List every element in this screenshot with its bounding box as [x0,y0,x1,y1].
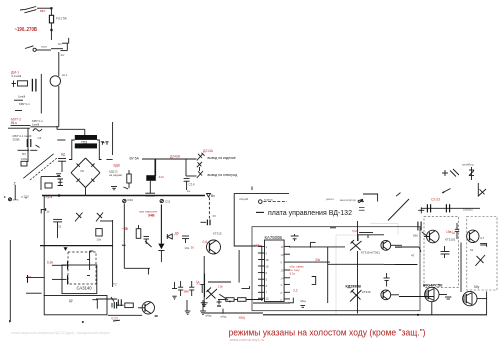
MOSFET Q9 [463,291,477,305]
svg-text:ж: ж [25,196,27,200]
capacitor C15 ground [172,282,177,299]
dash-dot wire [264,201,288,203]
lamp HL1 [50,76,60,86]
polarity plus [217,300,222,307]
svg-text:10к: 10к [218,285,223,289]
resistor R15 [238,298,246,302]
svg-text:Вх: Вх [211,194,215,198]
capacitor C19 [112,302,124,309]
component bracket [312,277,316,285]
autotransformer arrow 2 [30,158,57,180]
board outline [252,227,420,311]
IC DA1 [265,240,285,302]
diode VD13 [96,213,103,222]
transformer T1 secondary bar [75,143,97,148]
wire [154,159,156,176]
wire stub [113,319,120,322]
MOSFET Q8 [425,287,439,301]
wire [289,246,345,248]
resistor R1 [51,38,69,51]
transistor Q1 [207,240,221,254]
capacitor C25 [441,246,450,258]
svg-text:1к: 1к [191,246,195,250]
svg-text:Д243А: Д243А [170,154,181,158]
bridge rectifier VD3 [71,173,86,188]
wire [357,221,359,241]
svg-text:34В: 34В [148,214,155,218]
wire [40,177,42,190]
transformer T1 core stub [84,129,86,135]
svg-text:100к: 100к [21,157,28,161]
capacitor C17 [189,281,194,296]
svg-text:1к: 1к [452,231,456,235]
wire [58,52,60,76]
wire [477,183,479,197]
wire [108,314,142,316]
svg-text:1к: 1к [125,227,129,231]
marks [301,306,306,308]
wire [289,261,330,263]
svg-text:VD: VD [80,169,84,173]
svg-text:0,22: 0,22 [112,317,119,321]
wire [147,268,149,274]
svg-text:51: 51 [470,248,474,252]
wire [18,149,30,151]
capacitor plate pair 2 [446,204,449,212]
resistor R17 [442,169,459,177]
capacitor C12 [96,297,121,306]
wire [359,232,373,234]
svg-text:15: 15 [266,265,270,269]
svg-text:С14: С14 [189,183,195,187]
wire [106,159,112,161]
svg-text:14: 14 [281,277,285,281]
diode VD17 pair [350,289,362,302]
wire [27,128,29,162]
svg-text:10к: 10к [185,246,190,250]
wire [57,139,65,141]
connector X1 [123,199,126,202]
wire [399,296,434,298]
node B [50,29,52,31]
IC right pin numbers [281,245,285,302]
wire corner above board [234,193,289,246]
wire [50,31,52,40]
wire [391,244,402,246]
net symbol O [259,200,263,204]
capacitor C20 ground [185,300,191,314]
dashed wire [208,198,210,219]
svg-text:реле t: реле t [326,197,334,201]
transformer T1 primary bar [75,135,97,140]
svg-text:4,7: 4,7 [480,236,485,240]
svg-text:Д213А: Д213А [203,149,214,153]
svg-text:51 к: 51 к [11,121,17,125]
diode VD6 [58,179,64,186]
wire exit top [363,194,378,202]
svg-text:снаббер: снаббер [462,163,474,167]
svg-text:хх: хх [28,275,32,279]
resistor R14 [226,298,234,302]
bracket corner [92,300,97,309]
polarity plus [418,207,424,213]
IC right pins [284,246,290,299]
svg-text:КТ315: КТ315 [213,232,222,236]
bridge rectifier VD4 [86,173,101,188]
input marker Вх [207,194,211,198]
wire [486,292,488,315]
wire [124,267,150,269]
transformer T2 top [358,235,368,241]
svg-text:на радиат.: на радиат. [109,173,123,177]
wire to transformer [57,128,85,130]
node dot [82,321,84,323]
bracket right [480,244,486,247]
svg-text:С4: С4 [38,136,42,140]
resistor R16 [310,242,315,247]
wire [185,159,187,176]
capacitor plate pair 1 [427,204,430,212]
svg-text:КТ315+КТ361: КТ315+КТ361 [361,251,380,255]
diode VD9 [197,153,205,161]
dashed heatsink box B [467,217,497,291]
choke L3 [146,175,156,193]
bridge rectifier VD1 [71,158,86,173]
svg-text:1мкФ: 1мкФ [18,95,26,99]
diode VD10 [197,162,202,167]
wire vertical mid [327,247,329,303]
svg-text:11: 11 [281,245,284,249]
ground [201,303,208,307]
capacitor C23 [384,273,390,287]
svg-text:плата управления ВД-132: плата управления ВД-132 [268,210,352,217]
svg-text:сеть: сеть [13,198,19,202]
svg-text:R10: R10 [128,198,134,202]
svg-text:6,8к: 6,8к [47,260,54,264]
label red block [290,265,305,276]
capacitor C11 [53,219,62,238]
resistor R6 [127,170,131,188]
resistor R11 [136,225,141,238]
wire caps line [421,207,480,209]
wire tick [251,187,253,191]
svg-text:~190..270В: ~190..270В [15,27,38,33]
wire [439,294,447,296]
resistor R3 [21,161,27,166]
arrow diagonal [442,189,451,194]
svg-text:IRG4PC50: IRG4PC50 [423,282,443,287]
wire [36,145,40,148]
wire [395,246,402,248]
svg-text:НL1: НL1 [62,73,68,77]
diode VD16 pair [350,240,362,251]
wire [52,278,67,280]
capacitor C26 [455,223,459,239]
dashed heatsink box A [424,216,459,287]
LED HL2 [158,205,164,263]
svg-text:250В: 250В [13,138,20,142]
svg-text:5,1к: 5,1к [290,272,296,276]
varistor RU1 [33,129,42,131]
tick [480,244,486,246]
bridge rectifier VD2 [86,158,101,173]
wire [238,250,240,283]
wire [203,256,205,307]
svg-text:СА3140: СА3140 [77,285,93,290]
resistor R13 [125,303,134,308]
capacitor C8 [145,193,155,196]
wire [218,299,226,301]
svg-text:С2-23: С2-23 [431,197,440,201]
switch SA2 [25,46,51,52]
wire vertical q8 [431,302,433,315]
wire loop lower [44,296,107,315]
svg-text:R3: R3 [22,152,26,156]
label TT marks [101,142,109,145]
svg-text:схема сварочного инвертора ВД-: схема сварочного инвертора ВД-132 (дуга)… [11,331,110,335]
corner [288,298,293,303]
bracket T [41,208,46,214]
wire [395,246,419,248]
svg-text:др: др [69,299,73,303]
diode VD14 [145,241,152,247]
svg-text:МБГЧ-1: МБГЧ-1 [19,102,30,106]
IC left pin numbers [266,245,270,301]
capacitor C24 [418,222,428,238]
fuse FU1 [49,15,53,23]
capacitor C16 [178,281,183,296]
wire [56,126,58,129]
capacitor C22 [291,234,299,241]
wire [246,299,263,301]
svg-text:10: 10 [281,253,285,257]
tick pair [359,208,365,211]
capacitor plate 3 [26,275,42,293]
wire [102,142,105,143]
wire tick [222,309,224,314]
board caption dash [256,211,264,213]
autotransformer arrow [23,154,53,179]
wire [357,251,359,314]
svg-text:КТ315: КТ315 [362,290,371,294]
wire [395,264,417,266]
wire bottom left bus [204,312,263,314]
svg-text:ВД8: ВД8 [114,164,120,168]
svg-text:вентилятор: вентилятор [340,198,356,202]
capacitor C13 [144,237,150,245]
svg-text:ВУ-5А: ВУ-5А [130,157,140,161]
svg-text:защ: защ [239,315,245,319]
wire [41,176,61,178]
arrow down [360,199,363,203]
wire [11,125,31,127]
bracket G [242,286,250,288]
svg-text:560: 560 [413,233,418,237]
svg-text:С11: С11 [165,200,171,204]
svg-text:корпус: корпус [264,197,273,201]
net mark [358,200,364,202]
capacitor C14 [182,236,189,243]
svg-text:1мкФ: 1мкФ [32,122,40,126]
node A [50,7,52,9]
svg-text:R1: R1 [58,42,62,46]
wire [15,110,22,112]
wire rail left outer [9,240,11,322]
capacitor C9 [184,178,190,190]
capacitor plate [67,261,69,270]
wire [89,251,91,270]
bus 15V [40,245,113,247]
wire [112,220,114,287]
wire tick [419,247,421,252]
thyristor VS1 [206,288,231,303]
capacitor C5 [27,139,31,147]
wire [391,294,399,296]
wire [50,9,52,15]
transformer T1 left lead [69,140,75,160]
connector X3 [9,198,12,201]
svg-text:вкл: вкл [40,9,45,13]
wire [58,86,60,127]
ground tick [445,297,451,299]
wire [328,263,384,265]
svg-text:47: 47 [411,254,415,258]
node dot [4,196,6,198]
diode VD20 [475,255,485,266]
transistor Q5 [381,290,391,300]
wire from X1 down [123,204,125,269]
wire [30,126,58,128]
op-amp input minus [87,259,90,261]
wire [52,264,67,266]
svg-text:КА7500Б: КА7500Б [265,235,283,240]
svg-text:0,6: 0,6 [203,240,208,244]
wire [26,277,44,279]
node [58,194,60,196]
wire [384,263,417,265]
wire bottom tick [9,320,11,322]
IC left pins [258,246,265,298]
svg-text:1мк: 1мк [183,290,189,294]
svg-text:хх: хх [213,214,217,218]
svg-text:кк: кк [155,314,159,318]
wire [30,149,37,151]
svg-text:12: 12 [266,297,270,301]
diode VD18 [469,167,474,180]
svg-text:общ: общ [206,314,212,318]
svg-text:общ: общ [221,315,227,319]
svg-text:1н: 1н [187,189,191,193]
svg-text:общ: общ [300,299,306,303]
wire output top [142,158,197,160]
svg-text:50у: 50у [474,285,480,289]
capacitor C10 [201,220,211,226]
wire [85,188,87,196]
wire [234,299,238,301]
capacitor C2 [32,79,36,92]
wire [204,274,206,298]
inductor L1 [12,81,28,88]
node dot [417,314,419,316]
main bus [42,195,205,197]
resistor R8 [96,229,102,236]
svg-text:С6: С6 [58,225,62,229]
wire [460,243,462,293]
svg-text:З13: З13 [159,175,164,179]
bus bottom [263,314,487,316]
svg-text:Д9: Д9 [175,232,179,236]
diode VD15 [167,234,172,239]
wire [124,187,129,189]
diode VD11 [197,171,203,178]
diode VD19 [478,189,486,196]
wire [208,281,231,283]
svg-text:Тр2: Тр2 [352,229,357,233]
dashed box opamp [68,252,96,284]
capacitor C7 [58,159,66,173]
op-amp input plus [87,275,90,277]
wire [186,175,197,177]
transistor Q7 [467,230,479,242]
svg-text:Т2: Т2 [113,283,117,287]
svg-text:www.cxema.my1.ru: www.cxema.my1.ru [230,337,265,342]
ground [111,187,117,190]
svg-text:16: 16 [266,258,270,262]
transformer T1 right lead [97,140,102,160]
svg-text:33к: 33к [315,258,321,262]
wire [14,185,16,200]
connector X2 [160,199,163,202]
resistor R4 [45,183,52,188]
wire [100,220,113,222]
IC left pin bus [261,246,263,301]
svg-text:2,2: 2,2 [293,289,298,293]
wire [199,167,201,171]
svg-text:10к: 10к [97,238,102,242]
svg-text:общий: общий [239,197,249,201]
transistor Q3 [381,240,391,250]
wire [358,234,384,236]
capacitor C18 [200,285,204,294]
wire [253,302,290,304]
wire [50,23,52,30]
wire [90,250,94,252]
svg-text:вывод на изделие: вывод на изделие [208,156,236,160]
svg-text:0,1мкФ: 0,1мкФ [12,74,23,78]
capacitor C21 ground [200,300,206,314]
transistor Q2 [138,302,155,314]
svg-text:1000х2: 1000х2 [463,208,473,212]
wire [112,122,114,155]
svg-text:13: 13 [281,269,285,273]
diode VD12 [75,213,83,222]
wire [8,127,30,129]
switch SA1 [20,7,51,13]
faint remnant lines [336,224,398,316]
svg-text:пуск: пуск [41,45,48,49]
wire [477,298,487,300]
wire [40,74,42,114]
wire [330,227,336,229]
switch arrow diagonal [388,193,409,221]
capacitor plate 2 [67,275,69,284]
op-amp U2 box [62,265,97,294]
svg-text:вывод на электрод: вывод на электрод [208,173,238,177]
svg-text:FU1 5A: FU1 5A [56,17,68,21]
ground [56,174,61,176]
capacitor C3 [14,99,23,101]
svg-text:КД2999В: КД2999В [346,285,362,289]
